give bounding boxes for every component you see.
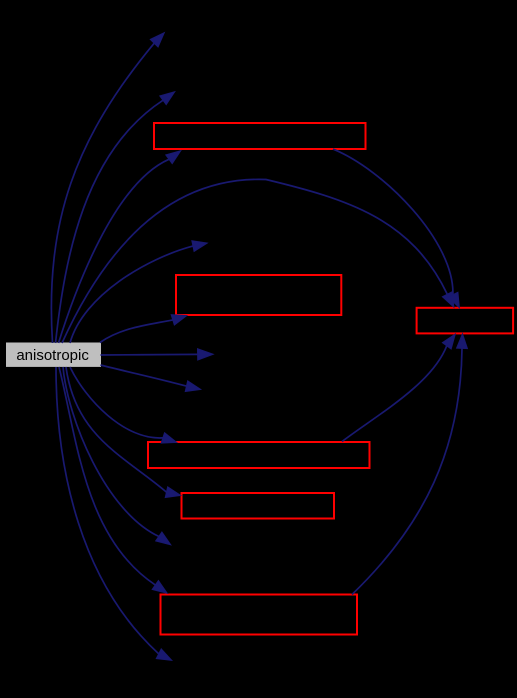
node box A (label hidden)	[154, 123, 366, 149]
node anisotropic (current node, grey)	[6, 343, 101, 367]
edge box F->box C	[352, 334, 468, 595]
edge anisotropic->hidden node 2	[56, 92, 176, 344]
edge anisotropic->box F	[59, 367, 168, 594]
edge anisotropic->box B	[100, 315, 187, 343]
node box B (label hidden)	[176, 275, 341, 315]
edge anisotropic->hidden node 4 (horizontal)	[101, 349, 214, 361]
svg-text:anisotropic: anisotropic	[16, 347, 89, 364]
edge anisotropic->box D	[70, 367, 177, 443]
node box E (label hidden)	[182, 493, 335, 519]
node box F (label hidden)	[161, 595, 358, 635]
edge anisotropic->hidden node 1 (top)	[51, 33, 164, 344]
node box C (label hidden)	[417, 308, 513, 334]
edge anisotropic->hidden node 3	[70, 241, 208, 343]
edge anisotropic->hidden node 5	[101, 365, 202, 392]
node box D (label hidden)	[148, 442, 370, 468]
edge anisotropic->hidden node 6	[63, 367, 171, 545]
edge box D->box C	[342, 334, 456, 442]
edge anisotropic->hidden node 7 (bottom)	[56, 367, 172, 661]
edge box A->box C	[333, 149, 460, 308]
edge anisotropic->box A	[59, 151, 182, 344]
edge anisotropic->box C (long arc)	[62, 179, 454, 343]
edge anisotropic->box E	[66, 367, 181, 498]
